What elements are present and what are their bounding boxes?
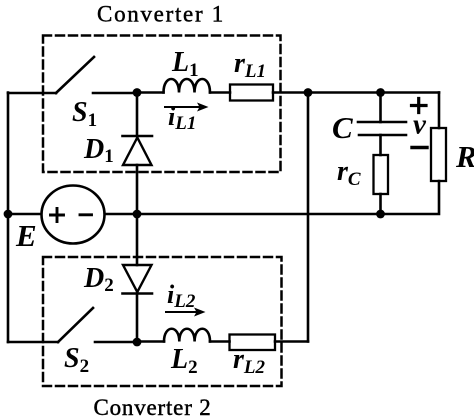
voltage source E circle bbox=[42, 186, 105, 244]
svg-text:R: R bbox=[455, 139, 474, 174]
inductor L2 bbox=[164, 329, 210, 342]
junction dot capacitor branch top bbox=[376, 88, 385, 97]
wire D1 bottom segment bbox=[136, 165, 139, 214]
wire bottom rail left of E bbox=[8, 213, 41, 216]
junction dot node S1/L1/D1 bbox=[133, 88, 142, 97]
resistor rC box bbox=[374, 155, 389, 194]
wire C to rC bbox=[379, 135, 382, 155]
wire feedback vertical x=308 bbox=[307, 93, 310, 342]
svg-text:C: C bbox=[332, 110, 353, 145]
wire D2 bottom segment bbox=[136, 294, 139, 343]
capacitor C bottom plate bbox=[359, 134, 406, 137]
wire S1 right lead bbox=[93, 92, 137, 95]
wire left vertical rail bbox=[7, 93, 10, 343]
inductor L1 bbox=[164, 79, 211, 93]
svg-text:E: E bbox=[15, 218, 37, 253]
arrow iL1 bbox=[165, 103, 209, 112]
wire L2 to rL2 bbox=[210, 340, 230, 343]
wire rL2 to feedback vertical bbox=[275, 340, 308, 343]
wire rC bottom to rail bbox=[379, 194, 382, 214]
Converter 1 dashed box bbox=[43, 36, 281, 173]
wire L1 to rL1 bbox=[210, 91, 230, 94]
diode D1 cathode bar bbox=[123, 135, 153, 138]
diode D2 triangle (apex down) bbox=[123, 265, 152, 292]
resistor rL1 box bbox=[230, 85, 273, 101]
wire R bottom to bottom rail corner bbox=[105, 181, 439, 214]
wire D1 top segment bbox=[136, 93, 139, 136]
resistor rL2 box bbox=[230, 335, 276, 351]
junction dot node S2/L2/D2 bbox=[133, 338, 142, 347]
diode D2 cathode bar bbox=[123, 292, 153, 295]
svg-text:v: v bbox=[413, 109, 427, 141]
Converter 2 dashed box bbox=[43, 257, 282, 386]
minus sign below v bbox=[412, 146, 427, 149]
svg-text:Converter 2: Converter 2 bbox=[93, 395, 211, 420]
capacitor C top plate bbox=[358, 121, 406, 124]
wire D2 top segment bbox=[136, 214, 139, 265]
wire capacitor branch top bbox=[379, 93, 382, 123]
arrow iL2 bbox=[166, 308, 206, 317]
wire top rail rL1 to right corner bbox=[273, 91, 439, 94]
resistor R box bbox=[431, 128, 446, 181]
wire top-left lead to S1 bbox=[8, 92, 56, 95]
switch S2 blade bbox=[58, 308, 93, 342]
wire node to L1 bbox=[137, 91, 164, 94]
switch S1 blade bbox=[56, 57, 94, 93]
svg-text:Converter 1: Converter 1 bbox=[97, 2, 225, 27]
diode D1 triangle (apex up) bbox=[123, 138, 152, 166]
junction dot node D1/D2/E rail bbox=[133, 210, 142, 219]
plus sign inside E bbox=[51, 209, 64, 222]
junction dot converter outputs on top rail bbox=[304, 88, 313, 97]
minus sign inside E bbox=[80, 213, 92, 216]
plus sign above v bbox=[412, 99, 427, 113]
junction dot at E negative rail left bbox=[4, 210, 13, 219]
wire node to L2 bbox=[137, 340, 164, 343]
wire right vertical to R top bbox=[438, 93, 441, 129]
wire S2 right lead bbox=[95, 341, 137, 344]
wire bottom-left lead to S2 bbox=[8, 341, 58, 344]
junction dot capacitor branch bottom bbox=[376, 210, 385, 219]
